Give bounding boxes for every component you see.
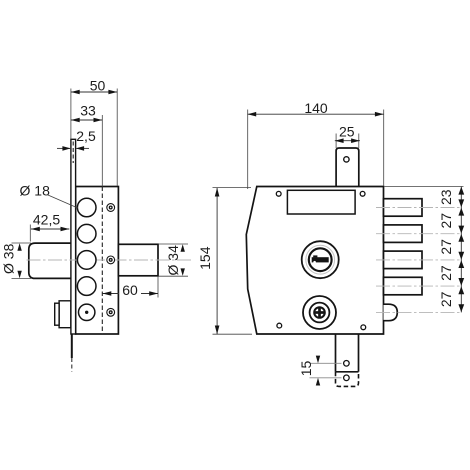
cylinder ring (gray)	[306, 245, 335, 274]
faceplate lower strip below body	[71, 334, 73, 358]
rivet 3	[107, 308, 115, 316]
dimension Ø34	[159, 244, 188, 276]
svg-text:27: 27	[438, 265, 454, 281]
corner screw hole BR	[361, 325, 366, 330]
pin hole circle 2	[77, 224, 96, 243]
phillips screw head	[314, 307, 326, 319]
bolt centerline 4	[376, 285, 461, 287]
latch centerline	[376, 311, 461, 313]
bottom tab crossbar	[336, 371, 359, 373]
chain arrows at bolt CL 3	[458, 252, 464, 260]
bolt centerline 2	[376, 233, 461, 235]
dimension 33	[71, 102, 102, 186]
cylinder face	[309, 248, 332, 271]
faceplate tapered tip (dashed)	[71, 358, 73, 372]
top tab hole	[344, 157, 349, 162]
cylinder rose (outer)	[302, 241, 339, 278]
pin hole circle 4	[77, 277, 96, 296]
centerline (horizontal axis, left view)	[27, 259, 194, 261]
right chain dimension extension (top)	[385, 186, 464, 188]
chain arrows at bolt CL 1	[458, 199, 464, 207]
lock case outline	[246, 187, 383, 335]
svg-text:42,5: 42,5	[33, 212, 60, 228]
svg-text:33: 33	[80, 102, 96, 118]
top fixing tab	[336, 148, 359, 187]
svg-text:27: 27	[438, 239, 454, 255]
svg-text:23: 23	[438, 189, 454, 205]
chain arrows at top edge	[458, 187, 464, 195]
svg-text:2,5: 2,5	[76, 128, 96, 144]
bottom fixing tab (upper solid part)	[336, 334, 359, 372]
dimension 25	[335, 124, 360, 148]
corner screw hole TR	[360, 191, 365, 196]
chain arrows at bolt CL 2	[458, 226, 464, 234]
svg-text:Ø 18: Ø 18	[20, 182, 51, 198]
bolt 1	[384, 199, 423, 217]
bottom tab hole 2	[344, 375, 350, 381]
latch bolt (rounded)	[384, 304, 398, 321]
lower screw boss (outer)	[303, 296, 336, 329]
pin hole circle 3	[77, 251, 96, 270]
pin hole circle 1 (Ø18)	[77, 198, 96, 217]
dimension 50	[71, 78, 117, 186]
dimension 154	[197, 188, 252, 335]
bottom tab lower part (dashed)	[336, 372, 359, 387]
bolt centerline 1	[376, 207, 461, 209]
dimension 42,5	[30, 212, 69, 242]
svg-text:15: 15	[298, 361, 314, 377]
lower screw boss (inner)	[310, 303, 330, 323]
right chain dimension line	[460, 187, 462, 313]
svg-text:60: 60	[122, 282, 138, 298]
svg-text:27: 27	[438, 213, 454, 229]
dimension 2,5	[57, 128, 96, 151]
cylinder barrel (Ø38, protrudes left)	[29, 243, 71, 278]
bottom bump cylinder on plate	[59, 301, 71, 328]
chain arrows at bolt CL 4	[458, 278, 464, 286]
dimension Ø38	[0, 243, 31, 279]
svg-text:50: 50	[90, 78, 106, 94]
bolt 3	[384, 251, 423, 269]
bolt centerline 3	[376, 259, 461, 261]
dimension 15	[298, 356, 341, 386]
corner screw hole BL	[277, 323, 282, 328]
chain arrow at latch CL	[458, 304, 464, 312]
svg-text:Ø 34: Ø 34	[165, 245, 181, 276]
lock body (side view)	[76, 187, 119, 335]
corner screw hole TL	[276, 191, 281, 196]
faceplate (2.5 thick)	[71, 139, 76, 334]
label plate	[287, 190, 355, 214]
keyway	[312, 255, 329, 263]
hidden reference line inside body	[101, 187, 103, 335]
bottom tab hole 1	[344, 361, 350, 367]
dimension 60	[103, 277, 159, 298]
rivet 2	[107, 256, 115, 264]
small hole with center dot	[79, 304, 95, 320]
svg-text:Ø 38: Ø 38	[0, 243, 16, 274]
svg-text:25: 25	[339, 124, 355, 140]
bottom bump cap	[55, 303, 59, 325]
svg-text:27: 27	[438, 291, 454, 307]
svg-text:154: 154	[197, 246, 213, 270]
rear spindle shaft (Ø34, protrudes right)	[118, 244, 158, 275]
dimension 140	[247, 100, 383, 189]
faceplate hidden dashes (inside plate top)	[72, 142, 74, 164]
rivet 1	[107, 204, 115, 212]
label Ø18 with leader	[20, 182, 78, 208]
svg-text:140: 140	[304, 100, 328, 116]
bolt 4	[384, 277, 423, 295]
bolt 2	[384, 225, 423, 243]
